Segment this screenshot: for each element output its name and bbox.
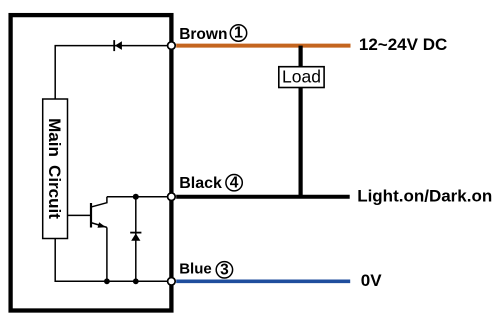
blue 0V wire [176, 279, 350, 283]
terminal 4 (Black) [168, 193, 176, 201]
wire: main circuit to transistor base [68, 214, 92, 216]
pin number 1 (circled) [230, 25, 246, 42]
label: 12~24V DC [359, 35, 447, 54]
svg-text:4: 4 [230, 174, 239, 191]
svg-text:12~24V DC: 12~24V DC [359, 35, 447, 54]
wire: diode D2 branch [135, 197, 137, 282]
brown supply wire (12~24V DC) [176, 44, 350, 48]
wire: collector rail to Black terminal [107, 196, 171, 198]
svg-text:Main Circuit: Main Circuit [45, 118, 64, 219]
terminal 3 (Blue) [168, 278, 176, 286]
label: Brown [179, 26, 227, 43]
label: Blue [179, 260, 212, 277]
svg-text:Light.on/Dark.on: Light.on/Dark.on [357, 187, 492, 206]
junction dot: D2 / 0V rail [133, 278, 139, 284]
junction dot: collector / D2 top [133, 194, 139, 200]
pin number 3 (circled) [216, 262, 232, 279]
load branch wire [299, 46, 303, 197]
diode D2 (surge protection, cathode up) [130, 233, 141, 241]
svg-text:0V: 0V [361, 271, 382, 290]
main circuit block U1 [43, 99, 68, 239]
label: 0V [361, 271, 382, 290]
svg-text:Black: Black [179, 175, 222, 192]
transistor Q1 (NPN output) [91, 197, 107, 228]
terminal 1 (Brown) [168, 42, 176, 50]
svg-text:1: 1 [234, 25, 243, 42]
pin number 4 (circled) [226, 174, 242, 191]
svg-text:3: 3 [220, 262, 229, 279]
sensor enclosure outline [11, 15, 172, 310]
svg-text:Load: Load [282, 67, 321, 87]
wire: Brown terminal to main circuit (top, through diode D1) [55, 46, 171, 100]
black output wire (Light.on/Dark.on) [176, 195, 350, 199]
svg-text:Blue: Blue [179, 260, 212, 277]
svg-text:Brown: Brown [179, 26, 227, 43]
label: Black [179, 175, 222, 192]
wire: 0V rail from main circuit bottom to Blue terminal [55, 239, 171, 282]
label: Light.on/Dark.on [357, 187, 492, 206]
load box [279, 67, 324, 88]
diode D1 (reverse-polarity protection, cathode left) [114, 40, 122, 51]
junction dot: emitter / 0V rail [104, 278, 110, 284]
wire: emitter down to 0V rail [106, 227, 108, 281]
